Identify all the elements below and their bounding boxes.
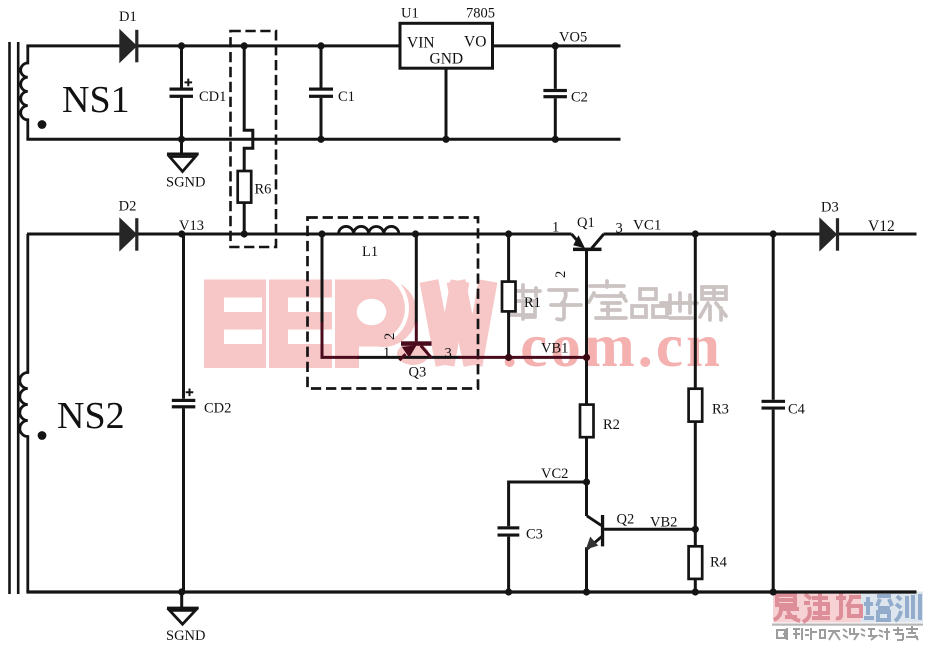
svg-text:R3: R3: [712, 402, 729, 418]
svg-text:R6: R6: [255, 182, 272, 198]
svg-text:D1: D1: [119, 9, 137, 25]
svg-text:L1: L1: [362, 244, 378, 260]
svg-text:V13: V13: [179, 218, 204, 234]
svg-text:NS2: NS2: [57, 395, 125, 437]
svg-text:CD1: CD1: [199, 89, 226, 105]
svg-text:2: 2: [382, 333, 398, 340]
svg-text:R2: R2: [603, 417, 620, 433]
svg-text:VO5: VO5: [559, 30, 587, 46]
svg-text:VC1: VC1: [633, 218, 661, 234]
svg-text:2: 2: [553, 271, 569, 278]
svg-text:VB1: VB1: [541, 341, 568, 357]
svg-text:SGND: SGND: [166, 628, 205, 644]
svg-text:.com.cn: .com.cn: [502, 313, 723, 380]
svg-text:3: 3: [616, 221, 623, 237]
svg-text:U1: U1: [401, 6, 419, 22]
svg-text:VO: VO: [464, 34, 486, 51]
svg-text:VIN: VIN: [407, 35, 435, 52]
svg-text:C4: C4: [788, 402, 806, 418]
svg-text:V12: V12: [868, 218, 895, 235]
svg-text:D2: D2: [119, 199, 137, 215]
svg-text:VC2: VC2: [541, 466, 568, 482]
svg-text:Q1: Q1: [577, 215, 595, 231]
svg-text:C2: C2: [571, 90, 588, 106]
svg-text:NS1: NS1: [62, 79, 130, 121]
svg-text:R4: R4: [710, 555, 728, 571]
svg-text:7805: 7805: [466, 6, 495, 22]
svg-text:1: 1: [552, 220, 559, 236]
svg-text:3: 3: [445, 346, 452, 362]
svg-text:D3: D3: [821, 200, 839, 216]
svg-text:CD2: CD2: [204, 401, 231, 417]
svg-text:Q2: Q2: [617, 512, 635, 528]
svg-text:C3: C3: [526, 527, 543, 543]
svg-text:SGND: SGND: [166, 175, 205, 191]
svg-text:Q3: Q3: [409, 365, 427, 381]
svg-text:GND: GND: [430, 51, 464, 68]
svg-text:VB2: VB2: [650, 515, 677, 531]
svg-text:R1: R1: [524, 295, 541, 311]
svg-text:C1: C1: [338, 89, 355, 105]
svg-text:1: 1: [383, 345, 390, 361]
